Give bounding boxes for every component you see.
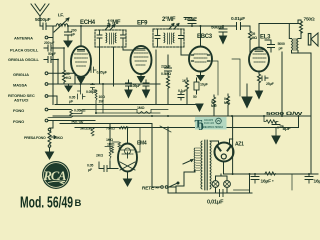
svg-text:EL3: EL3 <box>260 35 271 41</box>
svg-text:200 μF: 200 μF <box>44 41 55 45</box>
svg-text:1MΩ: 1MΩ <box>137 106 145 110</box>
svg-text:MΩ: MΩ <box>224 101 230 105</box>
svg-text:MΩ: MΩ <box>252 36 258 40</box>
svg-text:5000μF: 5000μF <box>35 17 51 23</box>
svg-text:100μF: 100μF <box>184 16 197 22</box>
svg-text:8μF: 8μF <box>283 126 291 132</box>
svg-text:I.F.: I.F. <box>58 13 64 19</box>
svg-text:ECH4: ECH4 <box>80 20 96 26</box>
svg-text:25KΩ: 25KΩ <box>54 136 63 140</box>
svg-text:EF9: EF9 <box>137 21 148 27</box>
svg-text:0.05μF: 0.05μF <box>86 90 97 94</box>
svg-text:50μF: 50μF <box>48 52 57 56</box>
svg-text:PRESA FONO: PRESA FONO <box>24 136 46 140</box>
svg-text:1°MF: 1°MF <box>107 20 121 26</box>
svg-text:5000 Ω/W: 5000 Ω/W <box>266 111 303 117</box>
svg-text:KΩ: KΩ <box>66 76 71 80</box>
svg-text:0.05KΩ: 0.05KΩ <box>74 109 86 113</box>
svg-text:MΩ: MΩ <box>211 104 217 108</box>
svg-text:BIBLIOTECA TECNICA: BIBLIOTECA TECNICA <box>203 125 223 129</box>
svg-text:0.05: 0.05 <box>87 164 93 168</box>
svg-text:MASSA: MASSA <box>13 83 27 88</box>
svg-text:0.05μF: 0.05μF <box>97 71 108 75</box>
svg-text:75Ω 1W: 75Ω 1W <box>71 121 84 125</box>
svg-text:2°MF: 2°MF <box>162 17 176 23</box>
svg-text:RETE ∼: RETE ∼ <box>142 186 159 192</box>
svg-text:0.5MΩ: 0.5MΩ <box>161 72 171 76</box>
svg-text:500μF: 500μF <box>211 25 224 31</box>
svg-text:5000: 5000 <box>278 42 285 46</box>
svg-text:0.05μF: 0.05μF <box>130 84 141 88</box>
svg-text:1W: 1W <box>99 100 105 104</box>
svg-text:GRIGLIA: GRIGLIA <box>13 72 29 77</box>
svg-text:10Ω: 10Ω <box>99 95 106 99</box>
svg-text:1KΩ: 1KΩ <box>106 138 113 142</box>
svg-text:16μF •: 16μF • <box>261 179 275 185</box>
svg-text:0.01μF: 0.01μF <box>231 16 245 22</box>
svg-text:220μF: 220μF <box>161 65 171 69</box>
svg-text:GRIGLIA OSCILL: GRIGLIA OSCILL <box>8 57 40 62</box>
svg-text:EM4: EM4 <box>137 141 147 147</box>
svg-text:Mod. 56/49: Mod. 56/49 <box>20 195 73 212</box>
svg-text:FONO: FONO <box>13 108 24 113</box>
svg-text:50: 50 <box>193 95 197 99</box>
svg-text:B: B <box>75 198 82 209</box>
svg-text:AZ1: AZ1 <box>235 142 244 148</box>
svg-text:70KΩ: 70KΩ <box>106 126 115 130</box>
svg-text:5KΩ1W: 5KΩ1W <box>80 127 93 131</box>
svg-text:2KΩ: 2KΩ <box>96 154 103 158</box>
svg-text:EBC3: EBC3 <box>197 34 213 40</box>
svg-text:1K: 1K <box>182 79 187 83</box>
svg-text:ANTENNA: ANTENNA <box>14 36 33 41</box>
svg-text:0,01μF: 0,01μF <box>207 200 224 206</box>
svg-text:ASTUCI: ASTUCI <box>14 98 28 103</box>
svg-text:1MΩ: 1MΩ <box>107 143 115 147</box>
svg-text:PLACA OSCILL: PLACA OSCILL <box>10 48 39 53</box>
svg-text:0.1μF: 0.1μF <box>178 89 187 93</box>
svg-text:750Ω: 750Ω <box>304 17 315 23</box>
svg-text:FONO: FONO <box>13 119 24 124</box>
svg-text:16μF: 16μF <box>314 179 320 185</box>
svg-text:25μF: 25μF <box>266 82 275 86</box>
svg-text:10μF: 10μF <box>200 83 209 87</box>
